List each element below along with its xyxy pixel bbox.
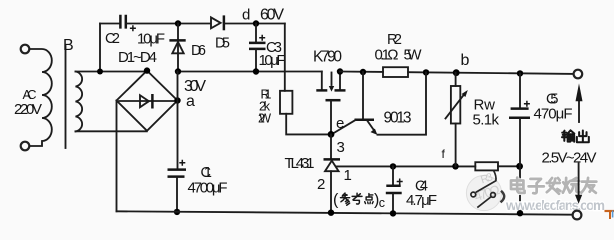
transformer B core [65, 46, 67, 148]
watermark logo bracket [501, 191, 505, 203]
label reference point (cankaodian) c [333, 192, 385, 211]
label output (shuchu) [562, 130, 589, 142]
svg-text:e: e [336, 115, 344, 132]
bridge rectifier D1-D4 diamond [117, 71, 178, 131]
svg-text:D6: D6 [191, 43, 206, 59]
svg-text:4700μF: 4700μF [188, 179, 228, 196]
resistor R2 [383, 67, 408, 77]
node C3 bottom [253, 68, 259, 74]
svg-text:470μF: 470μF [534, 106, 573, 123]
wire secondary top to bridge [76, 71, 147, 73]
node C5 top [517, 70, 523, 76]
node C1 bottom [174, 209, 180, 215]
watermark logo circle [466, 175, 501, 210]
wire C2 to D6/D5 node [127, 23, 210, 25]
node R3 right / C5 line [516, 163, 523, 170]
node e [328, 131, 335, 138]
wire D5 to node d [225, 23, 285, 25]
svg-text:B: B [63, 37, 74, 54]
watermark switch contacts [471, 170, 496, 207]
svg-text:C2: C2 [105, 31, 120, 47]
node 9013 collector [360, 69, 366, 75]
node C5 bottom [517, 210, 523, 216]
resistor R3 label (greyed by watermark) [472, 171, 501, 204]
node C4 top [390, 163, 396, 169]
terminal AC input top [21, 45, 30, 54]
capacitor C5 [509, 73, 530, 213]
plus sign C4 [397, 179, 403, 185]
svg-text:4.7μF: 4.7μF [406, 192, 437, 209]
svg-text:D1~D4: D1~D4 [118, 49, 157, 66]
node f [452, 163, 459, 170]
capacitor C4 [386, 166, 402, 213]
svg-text:b: b [461, 52, 470, 69]
shunt regulator TL431 [324, 134, 341, 212]
capacitor C3 [249, 24, 266, 72]
terminal output plus [574, 70, 583, 79]
wire C2 branch vertical [99, 24, 101, 72]
node C4 bottom [390, 210, 396, 216]
wire reference line [336, 165, 519, 167]
resistor R1 [280, 91, 292, 114]
svg-text:c: c [379, 196, 385, 210]
diode D6 [169, 24, 185, 72]
svg-text:d: d [242, 7, 250, 24]
label AC 220V [14, 87, 42, 118]
rail source to R2 [340, 71, 383, 73]
svg-text:K790: K790 [313, 49, 342, 66]
watermark corner mark [605, 211, 614, 220]
node D6 bottom [175, 68, 181, 74]
plus sign C3 [259, 35, 265, 41]
capacitor C1 [168, 170, 187, 212]
svg-text:5.1k: 5.1k [473, 112, 500, 129]
svg-text:a: a [186, 93, 195, 110]
node 9013 emitter riser [423, 69, 429, 75]
node K790 source [337, 68, 343, 74]
wire R1 bottom to node e [286, 114, 331, 135]
node TL431 anode [328, 210, 334, 216]
svg-text:2: 2 [317, 176, 325, 193]
transistor Q 9013 [332, 72, 427, 135]
terminal AC input bottom [21, 142, 30, 151]
plus sign C1 [179, 160, 185, 166]
node junction secondary/C2 [97, 69, 103, 75]
mosfet K790 [316, 72, 345, 135]
diode D5 [211, 15, 224, 30]
wire bridge+ to C1 [177, 72, 179, 170]
plus sign C2 [130, 25, 136, 31]
transformer B primary winding [30, 49, 52, 146]
watermark text dianzifashaoyou [511, 178, 596, 194]
bridge inner diode [119, 94, 174, 109]
terminal output minus [573, 211, 582, 220]
output arrow up [576, 83, 583, 122]
svg-text:10μF: 10μF [137, 31, 165, 48]
svg-text:1: 1 [344, 167, 352, 184]
node D6 top [175, 20, 181, 26]
node b [453, 69, 460, 76]
svg-text:3: 3 [337, 139, 345, 156]
bottom rail [117, 211, 573, 214]
svg-text:f: f [442, 147, 446, 161]
node bridge AC top [144, 67, 150, 73]
wire secondary bottom to bridge [76, 130, 147, 132]
svg-text:2W: 2W [258, 112, 271, 126]
node d [253, 20, 259, 26]
wire 60V rail elbow down to R1 [284, 24, 286, 91]
svg-text:0.1Ω: 0.1Ω [375, 47, 399, 64]
svg-text:60V: 60V [260, 7, 284, 24]
rail R2 to output [408, 72, 574, 74]
svg-text:220V: 220V [14, 101, 42, 118]
svg-text:D5: D5 [215, 35, 230, 51]
svg-text:2.5V~24V: 2.5V~24V [542, 150, 597, 167]
label R1 2k 2W [258, 88, 272, 126]
svg-text:5W: 5W [404, 47, 423, 64]
rail 30V node [178, 71, 322, 73]
plus sign C5 [524, 101, 530, 107]
wire bridge- down [116, 101, 118, 212]
svg-text:(: ( [333, 192, 339, 209]
wire top rail to C2 [100, 23, 119, 25]
resistor R3 [475, 162, 498, 170]
transformer B secondary winding [76, 72, 83, 132]
svg-text:AC: AC [23, 87, 37, 102]
node bridge DC+ [174, 97, 180, 103]
svg-text:10μF: 10μF [259, 52, 286, 69]
potentiometer Rw [446, 73, 468, 167]
capacitor C2 [120, 15, 125, 29]
output arrow down [575, 164, 582, 204]
svg-text:TL431: TL431 [285, 155, 315, 172]
svg-text:9013: 9013 [384, 110, 412, 127]
